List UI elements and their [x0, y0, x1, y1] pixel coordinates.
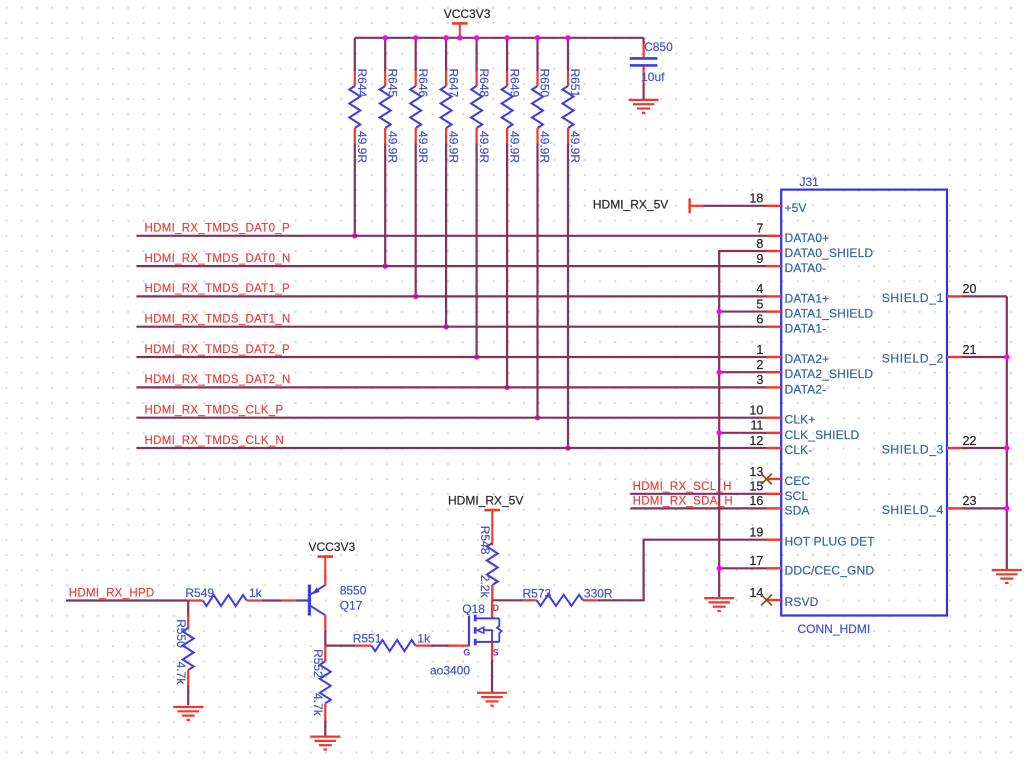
net HDMI_RX_SCL_H	[630, 481, 766, 494]
pin 18 +5V	[749, 192, 806, 215]
svg-text:HDMI_RX_TMDS_CLK_P: HDMI_RX_TMDS_CLK_P	[145, 405, 284, 417]
pin 10 CLK+	[749, 404, 815, 427]
svg-text:CLK+: CLK+	[785, 413, 816, 427]
svg-text:HDMI_RX_TMDS_DAT1_P: HDMI_RX_TMDS_DAT1_P	[145, 283, 290, 295]
svg-text:49.9R: 49.9R	[507, 131, 521, 163]
junction dots on VCC3V3 bus	[383, 35, 571, 40]
svg-text:SHIELD_4: SHIELD_4	[882, 503, 944, 517]
svg-text:18: 18	[749, 192, 763, 206]
svg-text:1: 1	[756, 343, 763, 357]
svg-text:8: 8	[756, 237, 763, 251]
svg-text:10uf: 10uf	[641, 70, 665, 84]
resistor R646 49.9R	[410, 38, 430, 297]
svg-text:SCL: SCL	[785, 489, 809, 503]
pin 22 SHIELD_3	[882, 434, 1007, 457]
svg-text:VCC3V3: VCC3V3	[309, 540, 356, 554]
svg-text:14: 14	[749, 586, 763, 600]
svg-text:R552: R552	[311, 649, 325, 678]
svg-text:HDMI_RX_5V: HDMI_RX_5V	[593, 198, 668, 212]
svg-text:4.7k: 4.7k	[174, 662, 188, 686]
svg-text:J31: J31	[800, 175, 820, 189]
svg-text:R551: R551	[353, 632, 382, 646]
ground below shield bus	[704, 598, 734, 611]
svg-text:VCC3V3: VCC3V3	[444, 7, 491, 21]
svg-text:CONN_HDMI: CONN_HDMI	[798, 622, 871, 636]
svg-text:1k: 1k	[249, 586, 263, 600]
svg-text:DATA2_SHIELD: DATA2_SHIELD	[785, 367, 874, 381]
svg-text:22: 22	[963, 434, 977, 448]
svg-text:HDMI_RX_TMDS_CLK_N: HDMI_RX_TMDS_CLK_N	[145, 435, 285, 447]
svg-text:C850: C850	[644, 40, 673, 54]
svg-text:13: 13	[749, 465, 763, 479]
junction dots right shield wire	[1004, 354, 1009, 511]
pin 1 DATA2+	[756, 343, 829, 366]
svg-text:20: 20	[963, 282, 977, 296]
svg-text:17: 17	[749, 554, 763, 568]
resistor R644 49.9R	[349, 38, 369, 236]
svg-text:15: 15	[749, 480, 763, 494]
svg-text:CLK_SHIELD: CLK_SHIELD	[785, 428, 860, 442]
ground below R552	[310, 737, 340, 750]
svg-text:R549: R549	[185, 586, 214, 600]
resistor R549 1k	[185, 586, 281, 606]
svg-text:49.9R: 49.9R	[355, 131, 369, 163]
svg-text:DATA1+: DATA1+	[785, 291, 830, 305]
pin 16 SDA	[749, 494, 809, 517]
svg-text:11: 11	[750, 419, 763, 433]
wire Q18 source to ground	[491, 660, 493, 693]
net HDMI_RX_SDA_H	[630, 495, 766, 508]
pin 7 DATA0+	[756, 222, 829, 245]
pin 17 DDC/CEC_GND	[749, 554, 874, 577]
resistor R648 49.9R	[471, 38, 491, 357]
svg-text:R644: R644	[355, 69, 369, 98]
pin 15 SCL	[749, 480, 808, 503]
resistor R650 49.9R	[532, 38, 552, 418]
resistor R645 49.9R	[380, 38, 400, 266]
svg-text:ao3400: ao3400	[430, 664, 470, 678]
pin 5 DATA1_SHIELD	[756, 297, 873, 320]
connector J31 body	[781, 175, 947, 636]
svg-text:49.9R: 49.9R	[446, 131, 460, 163]
svg-text:R647: R647	[446, 69, 460, 98]
svg-text:RSVD: RSVD	[785, 595, 819, 609]
svg-text:R573: R573	[523, 586, 552, 600]
pin 2 DATA2_SHIELD	[756, 358, 873, 381]
net HDMI_RX_TMDS_CLK_N	[136, 435, 766, 448]
svg-text:19: 19	[749, 526, 763, 540]
power VCC3V3 at Q17	[309, 540, 356, 571]
net HDMI_RX_TMDS_DAT1_N	[136, 314, 766, 327]
svg-text:3: 3	[756, 373, 763, 387]
svg-text:5: 5	[756, 297, 763, 311]
junction dots shield bus	[717, 309, 722, 571]
svg-text:21: 21	[963, 343, 977, 357]
svg-text:HDMI_RX_TMDS_DAT2_N: HDMI_RX_TMDS_DAT2_N	[145, 374, 291, 386]
svg-text:2.2k: 2.2k	[478, 575, 492, 599]
net HDMI_RX_TMDS_DAT2_N	[136, 374, 766, 387]
ground below right shield wire	[992, 570, 1022, 583]
svg-text:R645: R645	[385, 69, 399, 98]
net HDMI_RX_TMDS_DAT2_P	[136, 344, 766, 357]
pin 21 SHIELD_2	[882, 343, 1007, 366]
pin 12 CLK-	[749, 434, 812, 457]
svg-text:SDA: SDA	[785, 503, 810, 517]
ground below R550	[173, 707, 203, 720]
power port HDMI_RX_5V at R548	[448, 494, 523, 546]
pin 3 DATA2-	[756, 373, 826, 396]
svg-text:SHIELD_2: SHIELD_2	[882, 352, 944, 366]
resistor R548 2.2k	[478, 526, 498, 601]
svg-text:HDMI_RX_5V: HDMI_RX_5V	[448, 494, 523, 508]
svg-text:HDMI_RX_TMDS_DAT0_N: HDMI_RX_TMDS_DAT0_N	[145, 253, 291, 265]
resistor R552 4.7k	[311, 646, 331, 737]
resistor R649 49.9R	[502, 38, 522, 388]
net HDMI_RX_TMDS_DAT0_P	[136, 223, 766, 236]
svg-text:DATA0-: DATA0-	[785, 261, 827, 275]
svg-text:HDMI_RX_TMDS_DAT0_P: HDMI_RX_TMDS_DAT0_P	[145, 223, 290, 235]
net HDMI_RX_TMDS_CLK_P	[136, 405, 766, 418]
svg-text:SHIELD_1: SHIELD_1	[882, 291, 944, 305]
svg-text:DATA2-: DATA2-	[785, 382, 827, 396]
svg-text:HDMI_RX_SDA_H: HDMI_RX_SDA_H	[633, 495, 733, 507]
svg-text:10: 10	[749, 404, 763, 418]
power port HDMI_RX_5V (pin 18)	[593, 198, 767, 214]
svg-text:6: 6	[756, 313, 763, 327]
svg-text:R649: R649	[507, 69, 521, 98]
svg-text:HDMI_RX_TMDS_DAT1_N: HDMI_RX_TMDS_DAT1_N	[145, 314, 291, 326]
svg-text:DATA0+: DATA0+	[785, 231, 830, 245]
pin 20 SHIELD_1	[882, 282, 1007, 305]
svg-text:Q17: Q17	[340, 599, 363, 613]
svg-text:HDMI_RX_TMDS_DAT2_P: HDMI_RX_TMDS_DAT2_P	[145, 344, 290, 356]
svg-text:49.9R: 49.9R	[416, 131, 430, 163]
ground below Q18	[477, 693, 507, 706]
wire hot plug det	[492, 599, 523, 601]
svg-text:4: 4	[756, 282, 763, 296]
svg-text:S: S	[493, 648, 499, 658]
svg-text:330R: 330R	[584, 586, 613, 600]
svg-text:R548: R548	[478, 526, 492, 555]
transistor Q18 ao3400 (NMOS)	[430, 600, 502, 677]
svg-text:R650: R650	[538, 69, 552, 98]
svg-text:7: 7	[756, 222, 763, 236]
svg-text:CLK-: CLK-	[785, 443, 813, 457]
wire Q17 collector node	[324, 630, 326, 645]
net HDMI_RX_HPD	[66, 587, 188, 600]
svg-text:R550: R550	[174, 619, 188, 648]
svg-text:R651: R651	[568, 69, 582, 98]
transistor Q17 8550 (PNP)	[282, 571, 367, 630]
svg-text:D: D	[493, 603, 500, 613]
pin 6 DATA1-	[756, 313, 826, 336]
svg-text:SHIELD_3: SHIELD_3	[882, 443, 944, 457]
pin 4 DATA1+	[756, 282, 829, 305]
resistor R573 330R	[523, 586, 613, 606]
resistor R647 49.9R	[441, 38, 461, 327]
svg-text:CEC: CEC	[785, 474, 811, 488]
svg-text:HOT PLUG DET: HOT PLUG DET	[785, 535, 876, 549]
net HDMI_RX_TMDS_DAT1_P	[136, 283, 766, 296]
svg-text:Q18: Q18	[462, 602, 485, 616]
svg-text:49.9R: 49.9R	[568, 131, 582, 163]
pin 13 CEC	[749, 465, 810, 488]
capacitor C850 10uf	[630, 38, 673, 100]
svg-text:HDMI_RX_HPD: HDMI_RX_HPD	[69, 587, 155, 599]
resistor R651 49.9R	[563, 38, 583, 448]
svg-text:DDC/CEC_GND: DDC/CEC_GND	[785, 563, 875, 577]
svg-text:49.9R: 49.9R	[477, 131, 491, 163]
svg-text:12: 12	[749, 434, 763, 448]
power VCC3V3 top	[444, 7, 491, 38]
svg-text:+5V: +5V	[785, 201, 807, 215]
svg-text:G: G	[463, 648, 470, 658]
svg-text:DATA2+: DATA2+	[785, 352, 830, 366]
svg-text:1k: 1k	[417, 632, 431, 646]
resistor R551 1k	[353, 632, 469, 652]
svg-text:R646: R646	[416, 69, 430, 98]
svg-text:DATA1_SHIELD: DATA1_SHIELD	[785, 307, 874, 321]
net HDMI_RX_TMDS_DAT0_N	[136, 253, 766, 266]
svg-text:DATA0_SHIELD: DATA0_SHIELD	[785, 246, 874, 260]
resistor R550 4.7k	[174, 601, 194, 706]
svg-text:16: 16	[749, 494, 763, 508]
svg-text:49.9R: 49.9R	[538, 131, 552, 163]
svg-text:R648: R648	[477, 69, 491, 98]
wire VCC3V3 bus	[355, 37, 644, 39]
pin 8 DATA0_SHIELD	[756, 237, 873, 260]
svg-text:8550: 8550	[340, 583, 367, 597]
pin 11 CLK_SHIELD	[750, 419, 859, 442]
svg-text:2: 2	[756, 358, 763, 372]
svg-text:49.9R: 49.9R	[385, 131, 399, 163]
wire shield bus vertical	[719, 251, 766, 598]
svg-text:DATA1-: DATA1-	[785, 322, 827, 336]
pin 19 HOT PLUG DET	[749, 526, 875, 549]
svg-text:9: 9	[756, 252, 763, 266]
svg-text:4.7k: 4.7k	[311, 693, 325, 717]
wire shield right vertical	[1006, 296, 1008, 569]
pin 23 SHIELD_4	[882, 494, 1007, 517]
ground below C850	[629, 100, 659, 113]
pin 9 DATA0-	[756, 252, 826, 275]
svg-text:HDMI_RX_SCL_H: HDMI_RX_SCL_H	[633, 481, 732, 493]
svg-text:23: 23	[963, 494, 977, 508]
junction dots resistors to TMDS wires	[352, 233, 571, 451]
pin 14 RSVD	[749, 586, 818, 609]
